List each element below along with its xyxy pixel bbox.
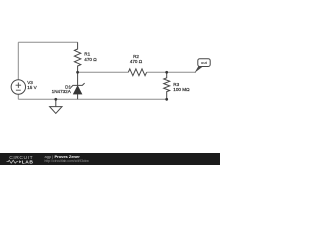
svg-text:1N4732A: 1N4732A — [52, 89, 72, 94]
junction R3 to ground rail — [165, 98, 168, 101]
svg-text:LAB: LAB — [22, 160, 34, 165]
svg-text:R3: R3 — [173, 82, 179, 87]
node flag out — [195, 59, 211, 73]
svg-text:470 Ω: 470 Ω — [84, 57, 97, 62]
footer bar — [0, 153, 220, 165]
wire: node A horizontal, R1/D1 junction to R2 — [78, 71, 129, 73]
ground — [50, 99, 62, 113]
zener diode D1 — [52, 72, 85, 99]
wire: V3 bottom terminal to bottom rail — [17, 94, 19, 99]
svg-text:R1: R1 — [84, 52, 90, 57]
wire: left vertical, top wire to V3 top terminal — [17, 42, 19, 80]
wire: R2 to out flag — [147, 71, 196, 73]
svg-text:15 V: 15 V — [27, 85, 37, 90]
resistor R1 — [74, 42, 97, 72]
junction node A (R1/D1/R2) — [76, 71, 79, 74]
svg-text:V3: V3 — [27, 80, 33, 85]
voltage source V3 — [11, 80, 37, 94]
footer title text — [45, 154, 90, 163]
wire: top horizontal from V3 to R1 — [18, 41, 77, 43]
svg-text:100 MΩ: 100 MΩ — [173, 87, 190, 92]
junction ground symbol to rail — [54, 98, 57, 101]
resistor R3 — [164, 72, 190, 99]
svg-text:out: out — [201, 61, 208, 65]
wire: bottom rail (ground rail) — [18, 98, 166, 100]
junction node out (R2/R3) — [165, 71, 168, 74]
resistor R2 — [128, 54, 146, 75]
svg-text:http://circuitlab.com/c/d93ckw: http://circuitlab.com/c/d93ckw — [45, 159, 90, 163]
svg-text:470 Ω: 470 Ω — [130, 59, 143, 64]
CircuitLab logo — [7, 155, 34, 166]
